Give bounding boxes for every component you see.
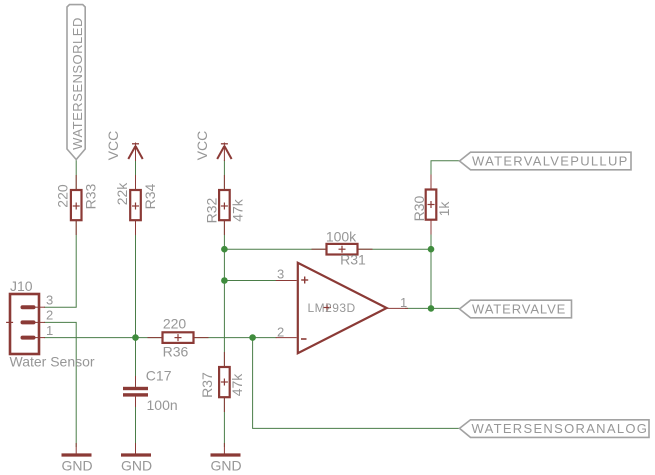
wire node B to C17	[135, 338, 137, 387]
svg-text:2: 2	[46, 308, 53, 323]
net label WATERSENSORANALOG	[460, 420, 650, 438]
capacitor C17	[123, 368, 178, 414]
resistor R36	[148, 316, 209, 360]
svg-text:22k: 22k	[114, 182, 130, 206]
svg-text:100k: 100k	[326, 229, 357, 245]
resistor R34	[114, 175, 158, 235]
wire C17 to GND2	[135, 397, 137, 447]
resistor R37	[199, 352, 245, 412]
ground GND2	[121, 443, 152, 474]
wire WATERSENSORLED to R33	[75, 158, 77, 190]
svg-text:1: 1	[400, 295, 407, 310]
svg-text:GND: GND	[210, 458, 241, 474]
svg-text:Water Sensor: Water Sensor	[10, 354, 95, 370]
resistor R30	[411, 175, 452, 235]
power VCC 1	[105, 131, 143, 161]
wire node B to R36	[136, 337, 163, 339]
ground GND1	[61, 443, 92, 474]
wire R34 to node B	[135, 220, 137, 338]
power VCC 2	[194, 131, 232, 161]
resistor R32	[204, 175, 246, 235]
wire node C2 to R37 (crosses pin2 net, no junction)	[223, 281, 225, 368]
junction node B	[132, 334, 139, 341]
ground GND3	[210, 443, 241, 474]
svg-text:WATERVALVEPULLUP: WATERVALVEPULLUP	[472, 154, 629, 169]
svg-text:220: 220	[163, 316, 187, 332]
wire R31 to node E1	[358, 248, 432, 250]
svg-text:1: 1	[46, 323, 53, 338]
svg-text:VCC: VCC	[194, 131, 210, 161]
wire R30 to WATERVALVEPULLUP	[431, 161, 460, 190]
wire node D to WATERSENSORANALOG	[253, 338, 460, 429]
svg-text:R32: R32	[204, 197, 220, 223]
svg-text:WATERSENSORLED: WATERSENSORLED	[70, 17, 85, 150]
junction node E1	[428, 246, 435, 253]
wire R36 to node D	[194, 337, 253, 339]
svg-text:GND: GND	[61, 458, 92, 474]
svg-text:GND: GND	[121, 458, 152, 474]
connector J10	[6, 278, 95, 370]
svg-text:100n: 100n	[147, 397, 178, 413]
svg-text:WATERVALVE: WATERVALVE	[472, 302, 566, 317]
svg-text:3: 3	[277, 267, 284, 282]
junction node C2	[221, 277, 228, 284]
svg-text:LM293D: LM293D	[308, 301, 356, 315]
svg-text:2: 2	[277, 325, 284, 340]
svg-text:J10: J10	[10, 278, 33, 294]
net label WATERSENSORLED	[67, 5, 85, 160]
junction node D	[249, 334, 256, 341]
wire J10 pin 2 to GND1	[44, 322, 76, 447]
svg-text:3: 3	[46, 293, 53, 308]
wire node E2 to WATERVALVE	[431, 307, 460, 309]
wire node E1 to node E2	[430, 249, 432, 308]
wire J10 pin 1 to node B	[44, 337, 136, 339]
svg-text:R36: R36	[163, 344, 189, 360]
wire VCC2 to R32	[223, 160, 225, 190]
junction node E2	[428, 305, 435, 312]
op-amp U1 LM293D	[276, 263, 408, 353]
svg-text:R33: R33	[83, 183, 99, 209]
wire R30 to node E1	[430, 220, 432, 249]
svg-text:C17: C17	[146, 368, 172, 384]
resistor R31	[312, 229, 373, 268]
wire node C1 to R31	[224, 248, 326, 250]
svg-text:1k: 1k	[436, 201, 452, 217]
svg-text:WATERSENSORANALOG: WATERSENSORANALOG	[472, 421, 649, 436]
net label WATERVALVE	[460, 300, 572, 318]
svg-text:47k: 47k	[229, 373, 245, 397]
resistor R33	[55, 175, 99, 235]
net label WATERVALVEPULLUP	[460, 152, 632, 170]
wire VCC1 to R34	[135, 160, 137, 190]
wire node C2 to op-amp pin 3	[224, 280, 276, 282]
svg-text:R37: R37	[199, 372, 215, 398]
svg-text:220: 220	[55, 184, 71, 208]
wire R37 to GND3	[223, 397, 225, 447]
svg-text:VCC: VCC	[105, 131, 121, 161]
wire R33 to J10 pin 3	[44, 220, 76, 307]
wire op-amp output to node E2	[405, 307, 431, 309]
wire R32 to node C1	[223, 220, 225, 249]
wire node C1 to node C2	[223, 249, 225, 281]
junction node C1	[221, 246, 228, 253]
svg-text:47k: 47k	[230, 198, 246, 222]
svg-text:R31: R31	[340, 252, 366, 268]
svg-text:R30: R30	[411, 195, 427, 221]
wire node D to op-amp pin 2	[253, 337, 277, 339]
svg-text:R34: R34	[142, 183, 158, 209]
